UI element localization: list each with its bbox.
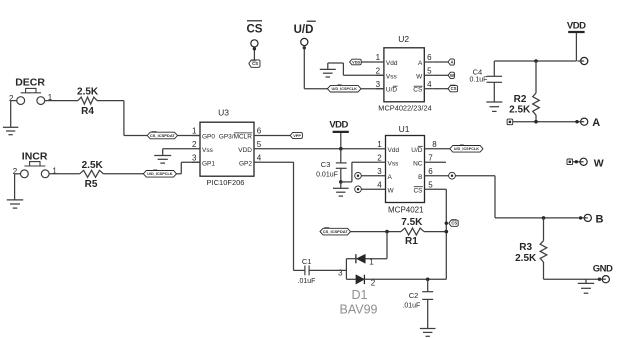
node A label	[592, 117, 600, 129]
U1 pin 3 number	[377, 167, 382, 176]
U2 pin 2 number	[376, 67, 381, 76]
svg-text:3: 3	[192, 153, 197, 162]
U3 pin 1 number	[192, 127, 197, 136]
pushbutton INCR	[21, 162, 50, 178]
wire R3 to GND port	[544, 278, 600, 280]
svg-text:A: A	[418, 60, 423, 67]
svg-text:2: 2	[371, 279, 376, 288]
U2 pin 5 name W	[416, 73, 423, 80]
U1 pin 3 name A	[388, 174, 393, 181]
chip U2 body	[384, 48, 424, 102]
part BAV99	[340, 303, 378, 317]
U2 pin 1 number	[376, 53, 381, 62]
net tag CS at U2	[448, 85, 458, 92]
U1 pin 5 number	[428, 180, 433, 189]
junction before GND port	[598, 278, 601, 281]
value 2.5K of R2	[509, 104, 531, 115]
U1 pin 5 name CS	[413, 187, 423, 195]
wire tag to R1	[351, 231, 402, 233]
net tag W at U2	[448, 72, 454, 78]
net tag VPP	[290, 133, 302, 139]
svg-text:GND: GND	[593, 264, 613, 275]
wire R1 to CS net	[424, 231, 446, 233]
designator R2	[514, 94, 527, 105]
resistor R5	[80, 170, 104, 177]
designator R3	[519, 242, 532, 253]
D1 common bar	[346, 259, 356, 280]
port U/D label	[294, 21, 316, 36]
svg-text:.01uF: .01uF	[298, 278, 316, 285]
svg-text:R3: R3	[519, 242, 532, 253]
svg-text:3: 3	[377, 167, 382, 176]
U1 pin 7 stub NC	[425, 161, 447, 163]
wire DECR pin2 to ground	[11, 101, 17, 128]
U2 pin 1 stub	[376, 61, 384, 63]
svg-text:BAV99: BAV99	[340, 303, 378, 317]
svg-text:4: 4	[257, 153, 262, 162]
U3 pin 5 name VDD	[238, 147, 252, 154]
capacitor C2	[422, 279, 433, 328]
pin 1 label INCR	[52, 166, 57, 175]
U2 pin 3 number	[376, 80, 381, 89]
U1 pin 3 connector icon	[355, 172, 362, 179]
U3 pin 1 name GP0	[202, 134, 215, 141]
U1 pin 8 name U/D	[411, 146, 423, 154]
wire INCR pin1 to R5	[49, 173, 80, 175]
designator D1	[352, 288, 368, 302]
svg-text:6: 6	[257, 127, 262, 136]
U1 pin 2 name Vss	[388, 160, 400, 167]
port terminal B	[584, 214, 592, 221]
U2 pin 2 name Vss	[386, 73, 398, 80]
junction before A port	[575, 120, 578, 123]
U2 pin 4 stub	[424, 88, 432, 90]
U3 pin 5 stub	[254, 148, 262, 150]
svg-text:U/D: U/D	[386, 87, 398, 94]
svg-text:D1: D1	[352, 288, 368, 302]
wire U/D port to tag	[304, 46, 327, 89]
svg-text:CS_ICSPDAT: CS_ICSPDAT	[323, 229, 349, 234]
U3 pin 1 stub	[192, 135, 200, 137]
D1 pin 1 number	[369, 257, 374, 266]
designator R1	[405, 236, 418, 247]
wire tag to U3 pin3	[177, 162, 201, 174]
junction VDD-C3	[339, 147, 343, 151]
wire U2 pin4 to CS tag	[432, 88, 448, 90]
svg-text:GP2: GP2	[239, 160, 252, 167]
wire U2 Vss to ground	[328, 63, 384, 75]
wire D1 pin1 up to R1	[365, 232, 387, 259]
port terminal GND	[600, 276, 610, 283]
value 7.5K of R1	[401, 217, 423, 228]
capacitor C1	[305, 266, 347, 276]
U3 pin 3 stub	[192, 161, 200, 163]
junction CS tag	[445, 222, 448, 225]
ground at C3	[333, 182, 349, 196]
wire DECR pin1 to R4	[45, 100, 78, 102]
net tag U/D_ICSPCLK at U3 GP1	[143, 170, 176, 177]
ground at C4	[486, 102, 502, 111]
value 0.01uF of C3	[316, 171, 338, 178]
value 2.5K of R4	[77, 87, 99, 98]
designator C2	[409, 291, 419, 300]
pin 2 label DECR	[9, 94, 14, 103]
svg-text:U/D: U/D	[411, 147, 423, 154]
svg-text:2: 2	[376, 67, 381, 76]
net tag U/D_ICSPCLK at U1	[450, 145, 483, 152]
junction at CS port	[253, 47, 256, 50]
svg-text:2: 2	[192, 140, 197, 149]
U3 pin 4 number	[257, 153, 262, 162]
U3 pin 6 stub	[254, 135, 262, 137]
svg-text:1: 1	[369, 257, 374, 266]
svg-text:VDD: VDD	[567, 20, 586, 31]
U2 pin 2 stub	[376, 74, 384, 76]
U1 pin 4 connector icon	[355, 186, 362, 193]
svg-text:3: 3	[376, 80, 381, 89]
pushbutton DECR	[17, 88, 45, 104]
wire U2 pin6 to A tag	[432, 61, 448, 63]
svg-text:.01uF: .01uF	[402, 302, 420, 309]
ground at INCR	[7, 200, 24, 208]
svg-text:2.5K: 2.5K	[77, 87, 99, 98]
svg-text:INCR: INCR	[22, 151, 48, 163]
svg-text:7: 7	[428, 153, 433, 162]
net tag CS at U1	[449, 220, 458, 227]
junction R1-CS	[445, 230, 449, 234]
ground at U3 Vss	[154, 156, 171, 164]
node GND label	[593, 264, 613, 275]
U2 pin 5 number	[427, 67, 432, 76]
svg-text:VDD: VDD	[352, 60, 360, 64]
U1 pin 6 stub	[425, 175, 449, 177]
D1 pin 3 number	[338, 268, 343, 277]
svg-text:VDD: VDD	[238, 147, 252, 154]
junction C3-ground	[339, 180, 343, 184]
junction VDD-R2	[534, 59, 538, 63]
svg-text:C3: C3	[321, 160, 331, 169]
pot U1 designator	[399, 124, 410, 134]
U1 pin 7 number	[428, 153, 433, 162]
port terminal A	[581, 118, 588, 125]
designator C3	[321, 160, 331, 169]
U3 pin 5 number	[257, 140, 262, 149]
wire node B to port	[495, 217, 584, 219]
svg-text:CS: CS	[451, 86, 457, 91]
svg-text:2: 2	[377, 153, 382, 162]
svg-text:GP0: GP0	[202, 134, 215, 141]
svg-text:CS: CS	[413, 187, 423, 194]
svg-text:MCP4021: MCP4021	[388, 206, 424, 215]
svg-text:7.5K: 7.5K	[401, 217, 423, 228]
U2 pin 6 number	[427, 53, 432, 62]
ground at DECR	[3, 127, 18, 134]
svg-text:2: 2	[9, 94, 14, 103]
ground at C2	[420, 329, 436, 337]
svg-text:1: 1	[376, 53, 381, 62]
net tag CS_ICSPDAT at R1	[320, 228, 351, 235]
port terminal W	[580, 158, 587, 165]
svg-text:CS_ICSPDAT: CS_ICSPDAT	[150, 133, 176, 138]
U1 pin 1 stub	[378, 148, 386, 150]
chip U1 body	[386, 136, 425, 203]
node W label	[594, 157, 604, 169]
wire U3 pin6 to VPP tag	[262, 135, 290, 137]
designator C4	[473, 67, 483, 76]
svg-text:4: 4	[427, 80, 432, 89]
value 0.1uF of C4	[470, 77, 488, 84]
U1 pin 7 name NC	[413, 160, 423, 167]
wire C3 to U1 Vss	[341, 162, 378, 182]
junction B-R3	[542, 216, 546, 220]
svg-text:VDD: VDD	[329, 119, 348, 130]
diode D1 top (cathode left)	[356, 254, 365, 263]
svg-text:1: 1	[377, 140, 382, 149]
ground at GND port	[578, 279, 594, 293]
svg-text:GP3/MCLR: GP3/MCLR	[219, 134, 253, 141]
svg-text:U/D_ICSPCLK: U/D_ICSPCLK	[454, 147, 480, 151]
svg-text:6: 6	[427, 53, 432, 62]
svg-text:U3: U3	[218, 107, 229, 117]
resistor R4	[78, 97, 97, 104]
svg-text:R5: R5	[85, 179, 98, 190]
svg-text:4: 4	[377, 180, 382, 189]
resistor R2	[533, 61, 540, 122]
wire INCR pin2 to ground	[15, 174, 21, 200]
U1 pin 1 number	[377, 140, 382, 149]
svg-text:Vdd: Vdd	[386, 60, 398, 67]
svg-text:8: 8	[432, 140, 437, 149]
net tag CS_ICSPDAT at U3 GP0	[147, 132, 177, 139]
U2 pin 6 name A	[418, 60, 423, 67]
svg-text:W: W	[416, 73, 423, 80]
svg-text:U/D_ICSPCLK: U/D_ICSPCLK	[147, 172, 173, 176]
U2 pin 1 name Vdd	[386, 60, 398, 67]
svg-text:A: A	[450, 60, 453, 65]
svg-text:C2: C2	[409, 291, 419, 300]
svg-text:5: 5	[257, 140, 262, 149]
value .01uF of C1	[298, 278, 316, 285]
wire VDD rail	[494, 60, 576, 62]
svg-text:0.01uF: 0.01uF	[316, 171, 338, 178]
value 2.5K of R3	[515, 253, 537, 264]
svg-text:Vss: Vss	[202, 147, 214, 154]
pin 2 label INCR	[13, 167, 18, 176]
wire U1 pin6 to node B	[455, 176, 495, 218]
junction R1-D1	[385, 230, 389, 234]
capacitor C3	[336, 149, 347, 182]
designator C1	[302, 257, 312, 266]
diode D1 bottom (cathode right)	[356, 275, 365, 284]
wire U3 Vss to ground	[163, 149, 192, 156]
resistor R3	[540, 218, 547, 279]
net tag U/D_ICSPCLK at U2	[327, 85, 361, 92]
U2 pin 4 name CS	[413, 86, 423, 94]
U1 pin 2 number	[377, 153, 382, 162]
net tag CS below port	[249, 60, 260, 67]
svg-text:0.1uF: 0.1uF	[470, 77, 488, 84]
svg-text:U/D: U/D	[294, 24, 314, 36]
U2 pin 4 number	[427, 80, 432, 89]
svg-text:CS: CS	[451, 221, 457, 226]
pushbutton INCR label	[22, 151, 48, 163]
port U/D terminal	[301, 38, 308, 45]
wire tag to U3 pin1	[178, 135, 201, 137]
junction R2-A	[534, 120, 538, 124]
wire tag to U2 pin3	[361, 88, 384, 90]
svg-text:5: 5	[427, 67, 432, 76]
svg-text:A: A	[388, 174, 393, 181]
svg-text:U2: U2	[398, 34, 409, 44]
svg-text:1: 1	[192, 127, 197, 136]
svg-text:U/D_ICSPCLK: U/D_ICSPCLK	[332, 87, 358, 91]
chip U1 name MCP4021	[388, 206, 424, 215]
U1 pin 1 name Vdd	[388, 147, 400, 154]
value 2.5K of R5	[82, 160, 104, 171]
svg-text:PIC10F206: PIC10F206	[207, 178, 245, 187]
node B label	[596, 213, 604, 225]
U1 pin 6 connector icon	[449, 172, 456, 179]
pin 1 label DECR	[48, 93, 53, 102]
port terminal VDD node	[577, 57, 587, 64]
svg-text:2.5K: 2.5K	[82, 160, 104, 171]
wire VDD tag to U2 pin1	[361, 61, 376, 63]
U1 pin 2 stub	[378, 161, 386, 163]
junction before W port	[575, 160, 578, 163]
svg-text:2.5K: 2.5K	[515, 253, 537, 264]
svg-text:C4: C4	[473, 67, 483, 76]
power VDD symbol right	[567, 20, 586, 61]
op-amp U2 designator	[398, 34, 409, 44]
U2 pin 5 stub	[424, 74, 432, 76]
U1 pin 6 name B	[418, 174, 422, 181]
svg-text:W: W	[594, 157, 604, 169]
U1 pin 4 number	[377, 180, 382, 189]
port CS terminal	[251, 40, 258, 60]
svg-text:R2: R2	[514, 94, 527, 105]
svg-text:MCP4022/23/24: MCP4022/23/24	[378, 104, 431, 113]
U3 pin 4 stub	[254, 161, 262, 163]
power VDD symbol mid	[329, 119, 348, 148]
pushbutton DECR label	[15, 76, 45, 88]
resistor R1	[401, 228, 424, 235]
connector icon A	[507, 119, 513, 125]
svg-text:U1: U1	[399, 124, 410, 134]
U3 pin 6 name GP3/MCLR	[219, 133, 253, 141]
U1 pin 4 name W	[388, 187, 395, 194]
svg-text:VPP: VPP	[293, 133, 301, 138]
capacitor C4	[487, 61, 503, 102]
svg-text:3: 3	[338, 268, 343, 277]
U3 pin 2 stub	[192, 148, 200, 150]
net tag VDD at U2 pin1	[350, 59, 362, 65]
U3 pin 2 number	[192, 140, 197, 149]
value .01uF of C2	[402, 302, 420, 309]
svg-text:CS: CS	[247, 23, 263, 35]
designator R5	[85, 179, 98, 190]
chip U3 name PIC10F206	[207, 178, 245, 187]
wire U2 pin5 to W tag	[432, 74, 448, 76]
wire U3 GP2 down to C1	[262, 162, 305, 270]
designator R4	[81, 106, 94, 117]
D1 pin 2 number	[371, 279, 376, 288]
svg-text:6: 6	[428, 167, 433, 176]
svg-text:GP1: GP1	[202, 160, 215, 167]
wire U3 VDD to U1 Vdd	[262, 148, 378, 150]
U3 pin 3 name GP1	[202, 160, 215, 167]
svg-text:Vdd: Vdd	[388, 147, 400, 154]
U1 pin 3 stub	[361, 175, 385, 177]
U2 pin 3 stub	[376, 88, 384, 90]
svg-text:CS: CS	[413, 87, 423, 94]
svg-text:CS: CS	[252, 61, 258, 66]
U3 pin 6 number	[257, 127, 262, 136]
U2 pin 3 name U/D	[386, 86, 398, 94]
svg-text:Vss: Vss	[388, 160, 400, 167]
wire R5 to U/D_ICSPCLK tag	[103, 173, 143, 175]
U3 pin 4 name GP2	[239, 160, 252, 167]
svg-text:W: W	[450, 73, 454, 78]
port CS label	[247, 21, 263, 36]
U1 pin 5 stub	[425, 188, 447, 190]
svg-text:DECR: DECR	[15, 76, 45, 88]
svg-text:A: A	[592, 117, 600, 129]
svg-text:B: B	[418, 174, 422, 181]
wire W icon to port	[573, 161, 584, 163]
U1 pin 8 stub	[425, 148, 450, 150]
mcu U3 designator	[218, 107, 229, 117]
svg-text:C1: C1	[302, 257, 312, 266]
U3 pin 3 number	[192, 153, 197, 162]
wire U1 CS down	[445, 189, 447, 279]
svg-text:W: W	[388, 187, 395, 194]
chip U3 body	[200, 122, 254, 176]
U3 pin 2 name Vss	[202, 147, 214, 154]
wire D1 pin2 to C2 and CS	[364, 278, 446, 280]
U1 pin 8 number	[432, 140, 437, 149]
wire R4 to CS_ICSPDAT tag	[97, 101, 147, 136]
wire to port A	[513, 121, 581, 123]
junction before B port	[579, 216, 582, 219]
junction C2	[426, 278, 430, 282]
U1 pin 4 stub	[361, 188, 385, 190]
U2 pin 6 stub	[424, 61, 432, 63]
svg-text:Vss: Vss	[386, 73, 398, 80]
U1 pin 6 number	[428, 167, 433, 176]
svg-text:NC: NC	[413, 160, 423, 167]
ground at U2 Vss	[320, 69, 336, 77]
junction at U/D port	[303, 46, 306, 49]
svg-text:B: B	[596, 213, 604, 225]
svg-text:2.5K: 2.5K	[509, 104, 531, 115]
chip U2 name MCP4022/23/24	[378, 104, 431, 113]
net tag A at U2	[448, 59, 454, 65]
connector icon W	[567, 159, 573, 165]
svg-text:R1: R1	[405, 236, 418, 247]
svg-text:2: 2	[13, 167, 18, 176]
svg-text:R4: R4	[81, 106, 94, 117]
svg-text:5: 5	[428, 180, 433, 189]
